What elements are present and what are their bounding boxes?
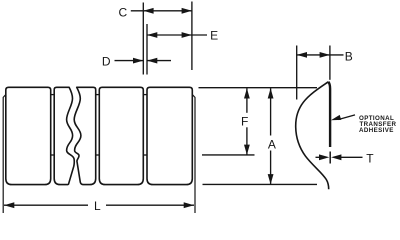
dimension line E with leader — [147, 34, 207, 36]
dimension line D right tail — [147, 60, 171, 62]
extension line D/E (finger4 left edge) — [146, 24, 148, 75]
slot web top, slot 2 — [96, 94, 100, 96]
finger 3 outline — [99, 87, 143, 184]
arrowhead adhesive leader — [331, 115, 341, 120]
svg-text:C: C — [118, 6, 127, 20]
arrowhead D left — [133, 58, 143, 64]
svg-text:A: A — [268, 137, 276, 151]
svg-text:L: L — [94, 199, 101, 213]
arrowhead A down — [268, 174, 274, 184]
extension line F bottom — [202, 154, 255, 156]
arrowhead C right — [182, 8, 192, 14]
finger 2 right piece with break edge — [74, 87, 96, 184]
dimension line L — [4, 204, 194, 206]
base strip right edge with hook — [192, 95, 195, 213]
extension line B left — [296, 46, 298, 100]
arrowhead L right — [184, 202, 194, 208]
svg-text:T: T — [366, 152, 374, 166]
slot tick bottom, slot 3 — [143, 154, 147, 156]
slot tick bottom, slot 2 — [96, 154, 100, 156]
extension line C/E right (finger4 right edge) — [191, 2, 193, 71]
svg-text:F: F — [241, 114, 248, 128]
dimension line A — [270, 88, 272, 184]
arrowhead E left — [147, 32, 157, 38]
dimension line T right tail — [340, 156, 363, 158]
arrowhead E right — [182, 32, 192, 38]
arrowhead B right — [320, 52, 330, 58]
label mask A — [265, 136, 278, 151]
top extension line (fingers top) — [199, 87, 318, 89]
label mask L — [88, 199, 106, 212]
extension line B right — [329, 46, 331, 80]
arrowhead T left — [319, 154, 329, 160]
arrowhead C left — [143, 8, 153, 14]
dimension line B with leader — [297, 54, 344, 56]
svg-text:E: E — [210, 29, 218, 43]
arrowhead F up — [244, 88, 250, 98]
arrowhead L left — [4, 202, 14, 208]
dimension line F — [246, 88, 248, 155]
arrowhead B left — [297, 52, 307, 58]
slot web top, slot 3 — [143, 94, 147, 96]
dimension line D left leader — [115, 60, 144, 62]
leader line adhesive note — [339, 115, 356, 120]
dimension line T left tail — [316, 156, 322, 158]
finger 2 left piece with break edge — [54, 87, 74, 184]
side profile flat extension through T — [329, 152, 331, 164]
arrowhead D right — [147, 58, 157, 64]
arrowhead A up — [268, 88, 274, 98]
extension line C/D left (finger4 pitch start) — [142, 3, 144, 75]
side profile flat (adhesive face) — [328, 82, 330, 147]
svg-text:D: D — [102, 55, 111, 69]
dimension line C — [131, 10, 192, 12]
arrowhead F down — [244, 145, 250, 155]
finger 4 outline — [147, 87, 192, 184]
slot web top, slot 1 — [51, 94, 55, 96]
arrowhead T right — [331, 154, 341, 160]
base strip left edge with hook — [3, 95, 5, 213]
side profile curved finger — [296, 82, 329, 189]
slot tick bottom, slot 1 — [51, 154, 55, 156]
finger 1 outline — [6, 87, 51, 184]
label mask F — [241, 113, 253, 128]
svg-text:B: B — [345, 49, 353, 63]
svg-text:ADHESIVE: ADHESIVE — [359, 127, 394, 134]
extension line A bottom — [203, 183, 318, 185]
